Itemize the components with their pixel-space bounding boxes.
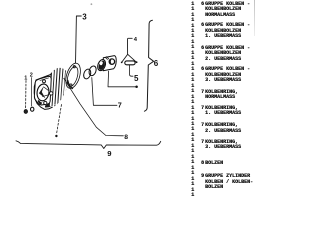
diagram SVG (0, 0, 255, 198)
svg-text:7: 7 (118, 100, 122, 109)
plate top edge line (40, 78, 49, 81)
plate corner shadow (38, 100, 43, 105)
piston bore highlight (99, 61, 103, 66)
svg-text:4: 4 (134, 37, 138, 43)
part nut (end of leader 1) (24, 110, 27, 114)
cylinder fin stripes (51, 68, 68, 107)
svg-text:5: 5 (134, 74, 139, 83)
label 1 dashed leader (25, 81, 27, 109)
piston ring A (82, 68, 92, 80)
label 3 leader (76, 16, 82, 64)
part washer (end of leader 2) (31, 107, 34, 111)
label 4 leader (128, 38, 133, 54)
paper speck (91, 3, 93, 5)
piston inner wall (98, 60, 106, 70)
gasket bottom shadow (68, 81, 73, 89)
gasket outer (63, 61, 83, 90)
piston ring B (88, 65, 98, 77)
leader dot (55, 135, 57, 137)
stud hole bottom (44, 101, 47, 104)
piston leader to dot (108, 71, 136, 87)
pin slot (125, 61, 135, 65)
piston skirt face (96, 59, 107, 72)
piston body (103, 56, 116, 71)
circlip triangle (122, 54, 136, 62)
gasket inner hole (65, 65, 80, 87)
quantity column of 1s (0, 0, 255, 1)
piston pin hole (109, 59, 114, 64)
piston crown grooves (105, 57, 108, 59)
label 8 leader (64, 78, 124, 136)
svg-text:3: 3 (82, 13, 87, 22)
svg-text:8: 8 (124, 134, 128, 141)
faint right page border (254, 0, 256, 36)
gasket bolt hole top (73, 66, 75, 68)
gasket bolt hole bottom (70, 84, 72, 86)
parts list text (0, 0, 255, 1)
bore inner shading wedge (39, 86, 46, 98)
label 5 leader (130, 65, 133, 76)
stud hole top (43, 80, 46, 83)
label 7 leader (92, 78, 117, 106)
svg-text:6: 6 (154, 59, 159, 68)
cylinder outline (34, 68, 68, 109)
stud hole right (50, 92, 53, 95)
label 2 leader (30, 78, 32, 107)
svg-text:9: 9 (107, 149, 111, 158)
cylinder fin block (45, 68, 68, 107)
group underbrace 9 (16, 141, 161, 149)
cylinder dashed leader to brace (57, 105, 62, 134)
group brace 6 (144, 20, 153, 111)
cylinder bore (36, 83, 50, 101)
cylinder base plate (34, 76, 51, 105)
